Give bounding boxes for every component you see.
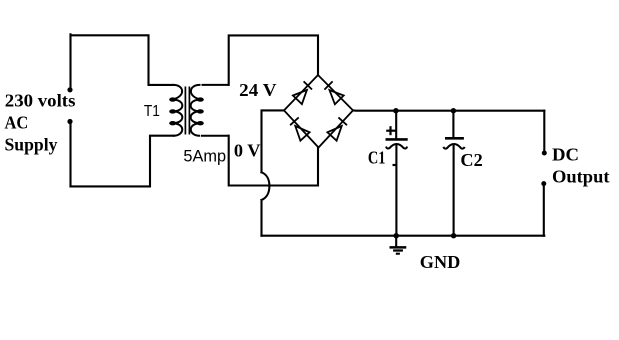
wire: left loop left vertical lower xyxy=(69,124,71,186)
svg-text:T1: T1 xyxy=(144,103,160,120)
wire: C1 top stub xyxy=(395,111,397,139)
wire: left loop top xyxy=(71,35,174,85)
core xyxy=(184,87,186,135)
wire: positive top rail xyxy=(353,109,544,111)
node: top rail C1 junction xyxy=(393,108,398,113)
bridge rectifier diamond xyxy=(284,75,353,148)
transformer T1 xyxy=(172,85,229,136)
junction and terminal dots xyxy=(67,87,546,238)
svg-text:Supply: Supply xyxy=(5,134,58,154)
C1 plus sign xyxy=(389,126,391,135)
wire: ground stem xyxy=(395,236,397,247)
C1 minus sign xyxy=(393,164,396,166)
svg-text:AC: AC xyxy=(5,113,29,133)
AC supply terminal bottom xyxy=(67,119,72,124)
primary winding xyxy=(172,85,182,136)
svg-text:24 V: 24 V xyxy=(239,80,276,100)
wire: bridge left node to hop xyxy=(262,110,285,172)
wire: C2 top stub xyxy=(452,111,454,138)
wire: secondary top lead to bridge xyxy=(229,35,318,85)
svg-text:230 volts: 230 volts xyxy=(5,91,76,111)
AC supply terminal top xyxy=(67,87,72,92)
secondary winding xyxy=(191,85,201,136)
DC output terminal bottom xyxy=(541,181,546,186)
node: ground rail C2 junction xyxy=(451,233,456,238)
svg-text:Output: Output xyxy=(552,166,610,186)
capacitor C1 plates xyxy=(386,126,408,165)
svg-text:GND: GND xyxy=(420,252,461,272)
diode D4 (bottom-right) xyxy=(327,126,341,141)
node: ground rail C1 junction xyxy=(394,233,399,238)
secondary bottom lead xyxy=(201,135,229,137)
wire: secondary 0V lead to bridge bottom xyxy=(229,136,318,186)
node: top rail C2 junction xyxy=(451,108,456,113)
ground symbol xyxy=(390,247,407,253)
winding knots xyxy=(169,97,204,125)
svg-text:C1: C1 xyxy=(368,147,386,167)
diode D3 (bottom-left) xyxy=(295,126,309,141)
diode D2 (top-right) xyxy=(330,90,344,104)
DC output terminal top xyxy=(542,151,547,156)
wire: DC output upper stub xyxy=(543,111,545,151)
svg-text:C2: C2 xyxy=(460,150,482,170)
svg-text:5Amp: 5Amp xyxy=(183,146,226,165)
wire: ground rail xyxy=(262,235,545,237)
wire: DC output lower stub xyxy=(543,186,545,236)
wire: left loop bottom xyxy=(71,136,174,187)
capacitor C2 plates xyxy=(443,138,464,148)
wire hop over 0V wire xyxy=(262,172,270,200)
svg-text:DC: DC xyxy=(552,145,579,165)
wire: hop to ground rail xyxy=(260,200,262,236)
secondary top lead xyxy=(202,84,229,86)
wire: C2 bottom stub xyxy=(453,145,455,236)
wire: left loop left vertical upper xyxy=(69,34,71,87)
wire: C1 bottom stub xyxy=(395,146,397,236)
diode D1 (top-left) xyxy=(293,90,307,104)
svg-text:0 V: 0 V xyxy=(234,140,261,160)
